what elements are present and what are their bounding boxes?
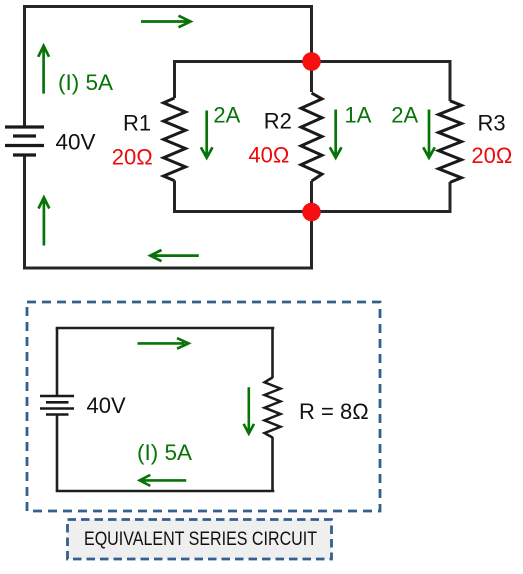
arrow current R1 down 2A	[201, 111, 213, 158]
node junction top	[302, 52, 321, 71]
svg-text:R2: R2	[264, 108, 292, 133]
svg-text:40Ω: 40Ω	[248, 143, 289, 168]
svg-text:2A: 2A	[213, 102, 240, 127]
svg-text:(I) 5A: (I) 5A	[137, 440, 192, 465]
wire R2 branch upper	[310, 5, 313, 92]
wire R1 bottom lead	[173, 181, 176, 214]
arrow current bottom (left)	[150, 250, 199, 261]
equivalent series circuit label box	[68, 520, 332, 560]
wire R3 bottom lead	[449, 182, 452, 213]
wire eq right lower lead	[271, 437, 274, 491]
wire outer left-top	[23, 7, 26, 128]
resistor R1 zigzag	[164, 98, 186, 181]
svg-text:20Ω: 20Ω	[112, 145, 153, 170]
wire outer top	[23, 5, 313, 8]
wire R3 top lead	[449, 60, 452, 101]
wire eq left lower	[56, 415, 59, 492]
wire outer left-bottom	[23, 155, 26, 268]
wire eq top	[56, 327, 275, 330]
arrow current up (battery top)	[38, 46, 49, 94]
wire R1 top lead	[173, 60, 176, 98]
equivalent circuit dashed box	[27, 302, 380, 511]
arrow current top (right)	[141, 16, 191, 28]
arrow current R3 down 2A	[423, 110, 435, 158]
svg-text:R3: R3	[478, 110, 506, 135]
battery B2 40V eq	[40, 396, 74, 415]
svg-text:EQUIVALENT SERIES CIRCUIT: EQUIVALENT SERIES CIRCUIT	[84, 528, 317, 550]
svg-text:20Ω: 20Ω	[471, 143, 512, 168]
wire outer bottom	[23, 267, 313, 270]
wire eq bottom	[56, 490, 275, 493]
node junction bottom	[302, 203, 321, 222]
resistor R eq zigzag	[265, 378, 281, 438]
svg-text:2A: 2A	[391, 103, 418, 128]
arrow eq current R down	[244, 387, 254, 433]
resistor R3 zigzag	[439, 101, 462, 183]
svg-text:1A: 1A	[345, 103, 372, 128]
arrow eq current bottom (left)	[140, 475, 187, 486]
arrow eq current top (right)	[138, 338, 189, 349]
svg-text:(I) 5A: (I) 5A	[58, 70, 113, 95]
wire R2 branch lower	[310, 181, 313, 268]
wire inner top rail	[173, 60, 452, 63]
arrow current R2 down 1A	[330, 110, 342, 158]
svg-text:R1: R1	[123, 111, 151, 136]
svg-text:R = 8Ω: R = 8Ω	[299, 399, 369, 424]
wire eq right upper lead	[271, 328, 274, 378]
battery B1 40V	[5, 127, 44, 155]
arrow current up (battery bottom)	[39, 198, 50, 246]
wire inner bottom rail	[173, 210, 452, 213]
svg-text:40V: 40V	[56, 130, 96, 155]
resistor R2 zigzag	[301, 93, 322, 181]
svg-text:40V: 40V	[87, 393, 126, 418]
wire eq left	[56, 328, 59, 396]
